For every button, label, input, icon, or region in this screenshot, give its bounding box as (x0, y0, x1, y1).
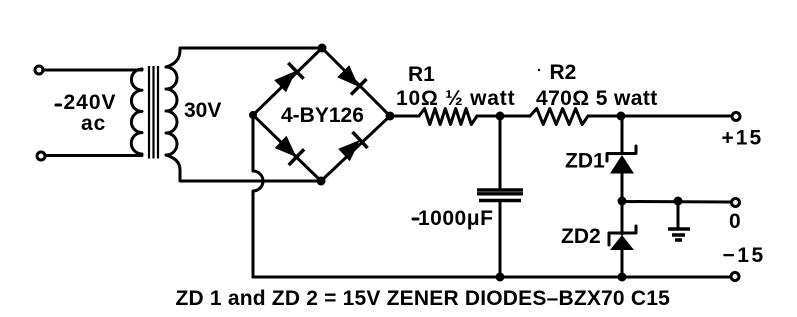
svg-text:470Ω 5 watt: 470Ω 5 watt (536, 87, 658, 110)
wire bottom rail (253, 276, 730, 279)
transformer T1 secondary winding (166, 67, 177, 155)
node capacitor tap (496, 112, 505, 121)
terminal -15 (731, 273, 739, 281)
node bridge left (249, 111, 257, 119)
wire secondary top to AC rail (166, 48, 322, 67)
terminal AC input bottom (37, 152, 45, 160)
wire bridge right to R1 (390, 115, 419, 118)
diode D2 top-right (335, 63, 366, 94)
terminal +15 (732, 113, 740, 121)
wire AC bottom (46, 154, 142, 157)
svg-text:240V: 240V (64, 91, 117, 114)
diode D1 top-left (272, 63, 303, 94)
wire R1 to R2 (477, 115, 530, 118)
svg-text:ZD2: ZD2 (561, 225, 601, 248)
svg-text:ZD 1 and ZD 2 = 15V ZENER DIOD: ZD 1 and ZD 2 = 15V ZENER DIODES–BZX70 C… (176, 287, 671, 310)
svg-text:30V: 30V (184, 99, 221, 122)
resistor R1 (419, 109, 477, 125)
wire bridge left node down with hop (253, 115, 263, 277)
svg-text:4-BY126: 4-BY126 (281, 104, 364, 127)
terminal AC input top (35, 66, 43, 74)
capacitor C1 lead top (499, 116, 502, 188)
node ground tap (674, 197, 683, 206)
label 240V ac (56, 91, 117, 135)
capacitor C1 plates (477, 190, 523, 201)
zener diode ZD1 (607, 116, 636, 201)
resistor R2 (530, 109, 588, 125)
diode D3 bottom-left (273, 134, 304, 165)
node bridge right (386, 112, 395, 121)
svg-text:R1: R1 (408, 63, 435, 86)
ground (668, 201, 690, 240)
wire zener mid to 0 terminal (622, 200, 731, 204)
bridge rectifier 4-BY126 diamond (253, 48, 390, 181)
svg-text:10Ω ½ watt: 10Ω ½ watt (396, 87, 515, 110)
transformer T1 primary winding (131, 69, 142, 154)
svg-text:1000μF: 1000μF (418, 207, 493, 230)
stray mark near R2 (538, 69, 540, 71)
zener diode ZD2 (609, 202, 636, 278)
node zener bottom (618, 273, 627, 282)
node cap bottom (496, 273, 505, 282)
wire AC top (44, 69, 142, 72)
node bridge bottom (317, 177, 326, 186)
svg-text:0: 0 (729, 210, 741, 233)
svg-text:−15: −15 (723, 244, 766, 267)
node bridge top (318, 44, 327, 53)
svg-text:R2: R2 (550, 61, 577, 84)
wire R2 to +15 terminal (588, 115, 731, 118)
label 1000uF (413, 207, 493, 230)
svg-text:ac: ac (81, 112, 106, 135)
node zener midpoint (618, 197, 627, 206)
svg-text:+15: +15 (722, 127, 764, 150)
terminal 0 (732, 199, 740, 207)
svg-text:ZD1: ZD1 (565, 150, 605, 173)
node zener tap (617, 112, 626, 121)
wire secondary bottom to bridge (166, 155, 321, 181)
diode D4 bottom-right (336, 132, 367, 163)
capacitor C1 lead bottom (499, 202, 502, 277)
transformer T1 core (149, 66, 158, 159)
